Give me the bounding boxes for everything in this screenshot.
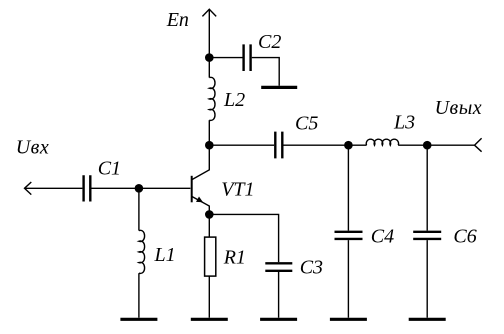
svg-text:C1: C1 (98, 158, 121, 180)
svg-text:L3: L3 (393, 111, 415, 133)
svg-text:VT1: VT1 (221, 178, 254, 200)
svg-text:L1: L1 (154, 244, 176, 266)
svg-text:L2: L2 (223, 89, 245, 111)
svg-text:C5: C5 (295, 112, 318, 134)
svg-text:Uвых: Uвых (435, 97, 483, 119)
svg-text:C6: C6 (453, 226, 476, 248)
svg-text:Еп: Еп (166, 9, 189, 31)
svg-text:C3: C3 (300, 256, 323, 278)
svg-text:Uвх: Uвх (16, 136, 50, 158)
svg-text:C2: C2 (258, 31, 281, 53)
svg-text:C4: C4 (371, 225, 394, 247)
svg-text:R1: R1 (223, 247, 246, 269)
